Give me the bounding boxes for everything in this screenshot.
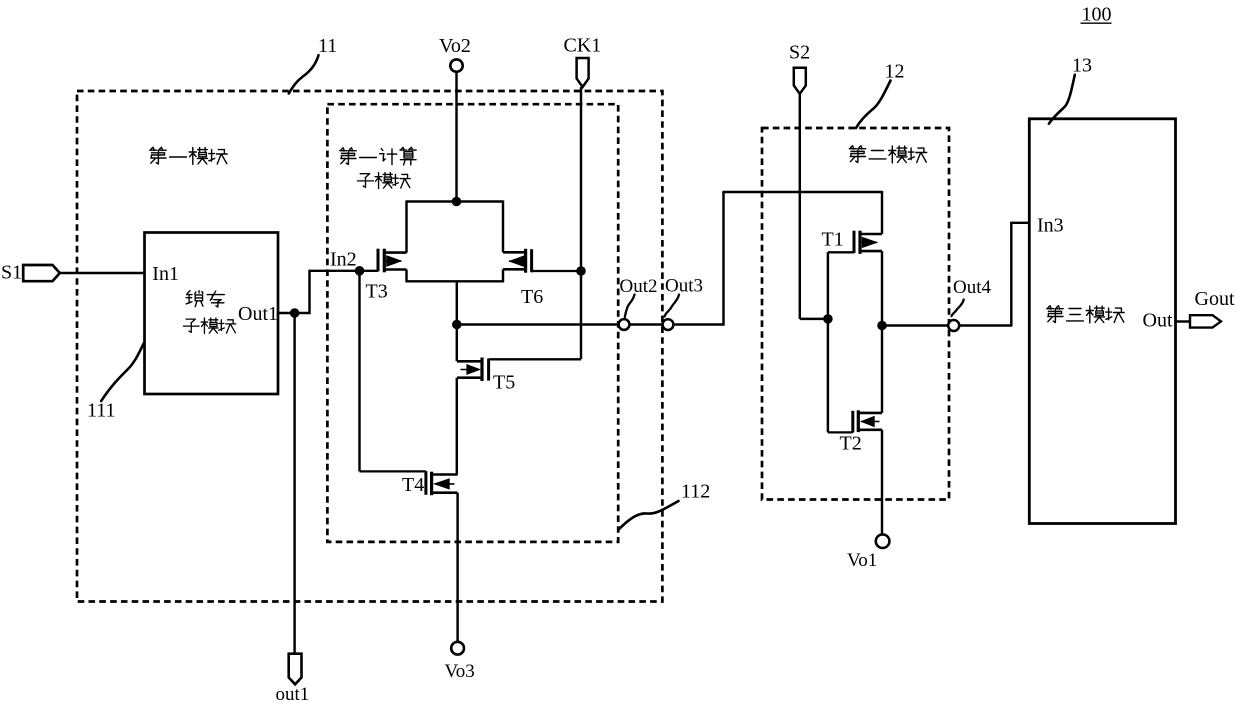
svg-text:Out1: Out1: [238, 303, 278, 325]
wire Out4 node down to T2 drain: [881, 324, 883, 413]
svg-text:Vo2: Vo2: [439, 35, 471, 57]
label latch submodule line2 (zi mo kuai): [183, 318, 235, 334]
junction node Out1: [290, 308, 300, 318]
terminal Gout (output arrow): [1190, 315, 1221, 327]
wire T3 source vertical: [405, 270, 407, 282]
terminal Vo1 (circle): [876, 534, 890, 548]
leader line 11: [289, 55, 319, 93]
transistor T5: [457, 358, 581, 382]
svg-text:T3: T3: [366, 281, 388, 303]
leader line 13: [1049, 75, 1075, 124]
wire Out1 node down to out1 terminal: [293, 312, 295, 654]
wire T1 source down to Out4 node: [881, 251, 883, 325]
junction center output node: [452, 320, 462, 330]
transistor T2: [828, 410, 882, 432]
junction top rail Vo2: [452, 197, 462, 207]
module box 13: [1029, 119, 1175, 524]
module box 11 dashed: [77, 91, 662, 602]
svg-text:100: 100: [1082, 4, 1112, 26]
CJK LABELS: [150, 146, 1124, 334]
svg-text:T1: T1: [822, 229, 844, 251]
terminal CK1 (flag down): [577, 58, 589, 87]
leader line 112: [618, 501, 678, 530]
submodule box 112 dashed: [327, 104, 618, 542]
svg-text:CK1: CK1: [564, 35, 602, 57]
svg-text:Vo1: Vo1: [847, 550, 877, 571]
junction node In2: [355, 266, 365, 276]
wire T2 source down to Vo1: [881, 430, 883, 535]
junction S2 gate bus: [823, 314, 833, 324]
transistor T4: [360, 471, 458, 495]
wire S2 to gate bus: [800, 318, 828, 320]
wire T6 drain vertical: [502, 200, 504, 252]
svg-text:11: 11: [318, 35, 337, 57]
wire CK1 stem down to T5 gate level: [580, 87, 582, 359]
wire S2 stem: [799, 94, 801, 319]
wire T5 source down to T4 drain: [456, 378, 458, 475]
wire bottom rail T3/T6 sources: [405, 280, 504, 282]
wire output line through Out2 Out3: [457, 323, 724, 325]
terminal S1 (input arrow): [23, 265, 60, 281]
svg-text:111: 111: [87, 400, 116, 422]
svg-text:T6: T6: [521, 286, 543, 308]
label second module (di er mo kuai): [849, 146, 926, 163]
label first module (di yi mo kuai): [150, 147, 227, 164]
svg-text:In1: In1: [152, 263, 179, 285]
wire riser up to In2 level: [308, 271, 310, 314]
leader line Out4: [952, 300, 964, 317]
leader line Out3: [665, 295, 680, 317]
latch submodule box 111: [145, 233, 279, 395]
module box 12 dashed: [762, 128, 949, 500]
wire center node down to T5 drain: [456, 280, 458, 361]
leader line 111: [101, 343, 144, 401]
leader line Out2: [625, 295, 635, 318]
svg-text:S1: S1: [1, 262, 22, 284]
terminal S2 (flag down): [794, 68, 806, 94]
label first computing submodule line2 (zi mo kuai): [358, 173, 411, 189]
DOTS: [290, 197, 887, 331]
svg-text:out1: out1: [276, 684, 310, 702]
svg-text:T2: T2: [840, 433, 862, 455]
label latch submodule line1 (suo cun): [186, 291, 224, 307]
svg-text:Out2: Out2: [620, 276, 658, 297]
svg-text:112: 112: [681, 481, 710, 503]
svg-text:Gout: Gout: [1195, 288, 1235, 310]
transistor T6: [503, 249, 581, 273]
terminal Vo3 (circle): [451, 642, 464, 655]
wire node In2 down to T4 gate level: [358, 270, 360, 472]
wire riser right of Out3: [722, 192, 724, 326]
label first computing submodule line1 (di yi ji suan): [340, 147, 416, 165]
wire rail to T1 drain: [722, 191, 882, 193]
svg-text:Vo3: Vo3: [445, 661, 475, 682]
svg-text:In3: In3: [1037, 215, 1064, 237]
svg-text:T5: T5: [493, 372, 515, 394]
label third module (di san mo kuai): [1047, 306, 1124, 323]
transistor T1: [828, 231, 882, 254]
node Out4 (ring): [948, 320, 959, 331]
wire In2 to T3 gate: [308, 270, 378, 272]
junction CK1 / T6 gate: [576, 266, 586, 276]
wire T3 drain vertical: [405, 200, 407, 252]
svg-text:Out4: Out4: [953, 277, 992, 298]
wire top rail T3/T6 drains: [407, 200, 504, 202]
wire Out4 line: [882, 324, 1011, 326]
wire Out to Gout: [1176, 320, 1191, 322]
svg-text:S2: S2: [789, 42, 810, 64]
wire S1 to In1: [60, 272, 145, 274]
wire Vo2 stem: [455, 72, 457, 202]
wire T1/T2 gate bus vertical: [827, 252, 829, 432]
junction T1 source / Out4: [877, 321, 887, 331]
transistor T3: [378, 249, 407, 273]
wire T6 source vertical: [502, 269, 504, 281]
node Out2 (ring): [619, 319, 630, 330]
svg-text:Out: Out: [1143, 310, 1173, 332]
terminal Vo2 (circle): [450, 59, 462, 71]
TRANSISTORS: [360, 231, 883, 496]
wire Out1 to riser: [278, 312, 310, 314]
wire riser to In3: [1011, 223, 1029, 327]
wire T4 source down to Vo3: [456, 493, 458, 642]
svg-text:In2: In2: [330, 249, 357, 271]
node Out3 (ring): [663, 319, 674, 330]
svg-text:Out3: Out3: [665, 276, 703, 297]
svg-text:T4: T4: [402, 474, 424, 496]
terminal out1 (flag down): [289, 654, 302, 685]
label 100 (figure number, underlined): [1081, 4, 1112, 26]
leader line 12: [856, 81, 891, 129]
SQUIGGLES: [101, 55, 1075, 530]
BOXES: [77, 91, 1176, 602]
svg-text:12: 12: [885, 61, 905, 83]
svg-text:13: 13: [1072, 55, 1092, 77]
wire T1 drain vertical: [881, 191, 883, 234]
